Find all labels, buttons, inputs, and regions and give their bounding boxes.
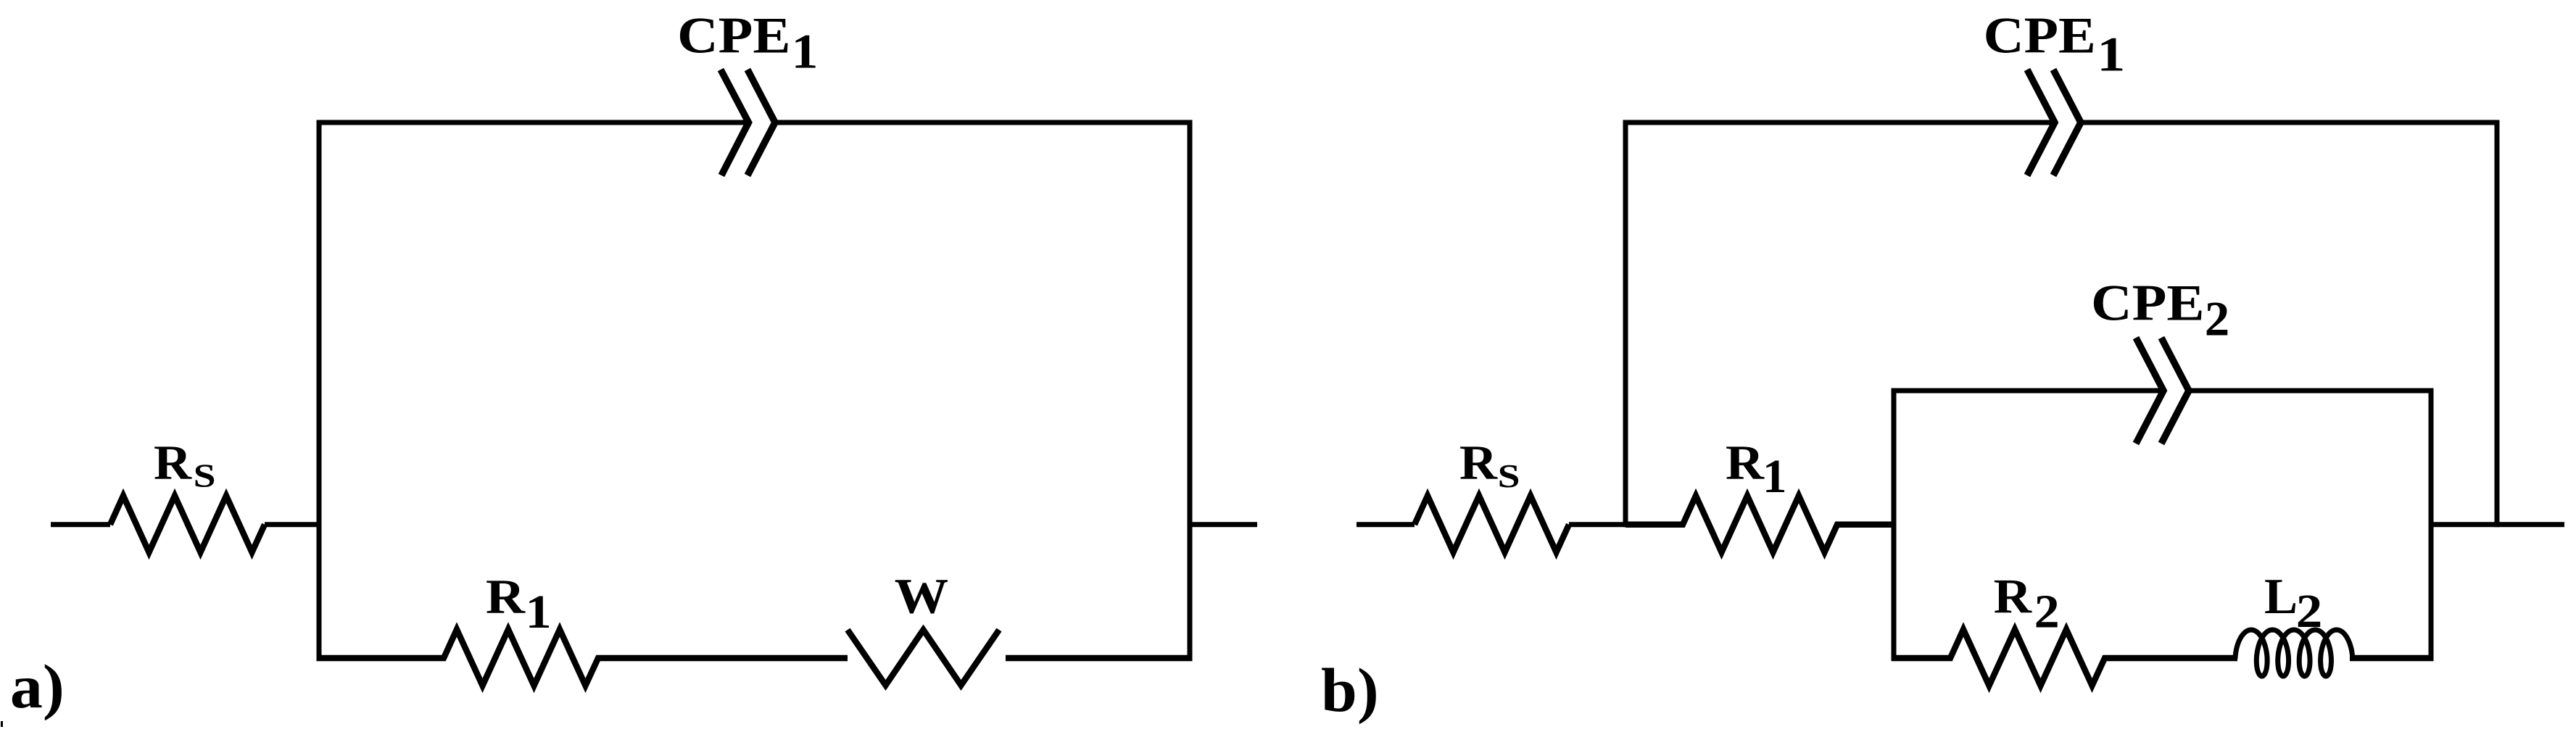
capacitor CPE1 chevrons (circuit a) [721,70,749,175]
capacitor CPE2 chevrons (circuit b) [2136,338,2163,444]
svg-text:1: 1 [1763,450,1787,503]
wire bottom branch left + resistor R1 (circuit a) [317,630,848,686]
svg-text:1: 1 [2097,27,2125,82]
svg-text:CPE: CPE [677,8,790,65]
svg-text:1: 1 [792,24,819,79]
svg-text:a): a) [10,652,65,721]
warburg W zigzag (circuit a) [848,630,999,686]
wire RS to node B [1569,522,1625,527]
svg-text:L: L [2264,569,2298,625]
wire top-right + right vertical (circuit a) [774,122,1190,661]
wire input lead circuit a [51,522,110,527]
crop tick mark [1,721,3,727]
wire output rail (circuit b) [2431,522,2564,527]
wire inner bottom right (circuit b) [2350,655,2434,662]
svg-text:R: R [1726,435,1765,490]
wire outer left vertical + top-left branch (circuit b) [1625,122,2055,527]
resistor R1 (circuit b) with leads [1625,496,1892,552]
svg-text:b): b) [1321,655,1379,725]
svg-text:1: 1 [526,586,552,639]
svg-text:R: R [1994,569,2032,624]
svg-text:S: S [194,457,216,494]
svg-text:R: R [154,435,192,490]
svg-text:2: 2 [2034,586,2060,639]
svg-text:R: R [486,569,526,624]
svg-text:2: 2 [2205,291,2230,346]
svg-text:R: R [1459,435,1498,490]
capacitor CPE1 chevrons (circuit b) [2027,70,2055,175]
resistor RS (circuit b) [1415,496,1569,552]
wire output stub (circuit a) [1190,522,1257,527]
wire left vertical + top-left branch (circuit a) [319,122,749,661]
svg-text:CPE: CPE [2091,275,2204,332]
wire bottom branch right (circuit a) [1006,655,1193,662]
svg-text:2: 2 [2296,585,2323,638]
svg-text:CPE: CPE [1984,8,2096,65]
wire inner top-right + inner right vertical (circuit b) [2189,391,2431,661]
svg-text:S: S [1498,457,1520,494]
wire inner bottom left + resistor R2 (circuit b) [1892,630,2238,686]
inductor L2 coil (circuit b) [2235,630,2353,676]
svg-text:W: W [895,569,949,624]
wire input lead circuit b [1357,522,1415,527]
wire RS to node A [265,522,322,527]
resistor RS (circuit a) [110,496,265,552]
wire inner left vertical + inner top-left (circuit b) [1894,391,2163,661]
wire top-right + outer right vertical (circuit b) [2081,122,2497,527]
